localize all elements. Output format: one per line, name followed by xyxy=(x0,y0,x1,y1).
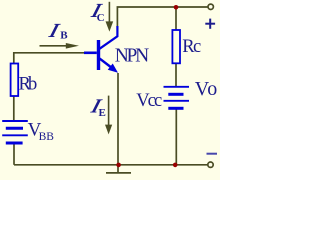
svg-text:NPN: NPN xyxy=(115,46,150,67)
svg-text:BB: BB xyxy=(39,131,55,143)
svg-text:Rb: Rb xyxy=(19,74,38,94)
svg-text:B: B xyxy=(60,30,68,42)
svg-text:Vcc: Vcc xyxy=(136,91,162,111)
svg-text:Vo: Vo xyxy=(195,78,218,100)
svg-text:C: C xyxy=(97,12,105,24)
svg-text:Rc: Rc xyxy=(182,37,201,57)
svg-text:E: E xyxy=(99,107,106,119)
